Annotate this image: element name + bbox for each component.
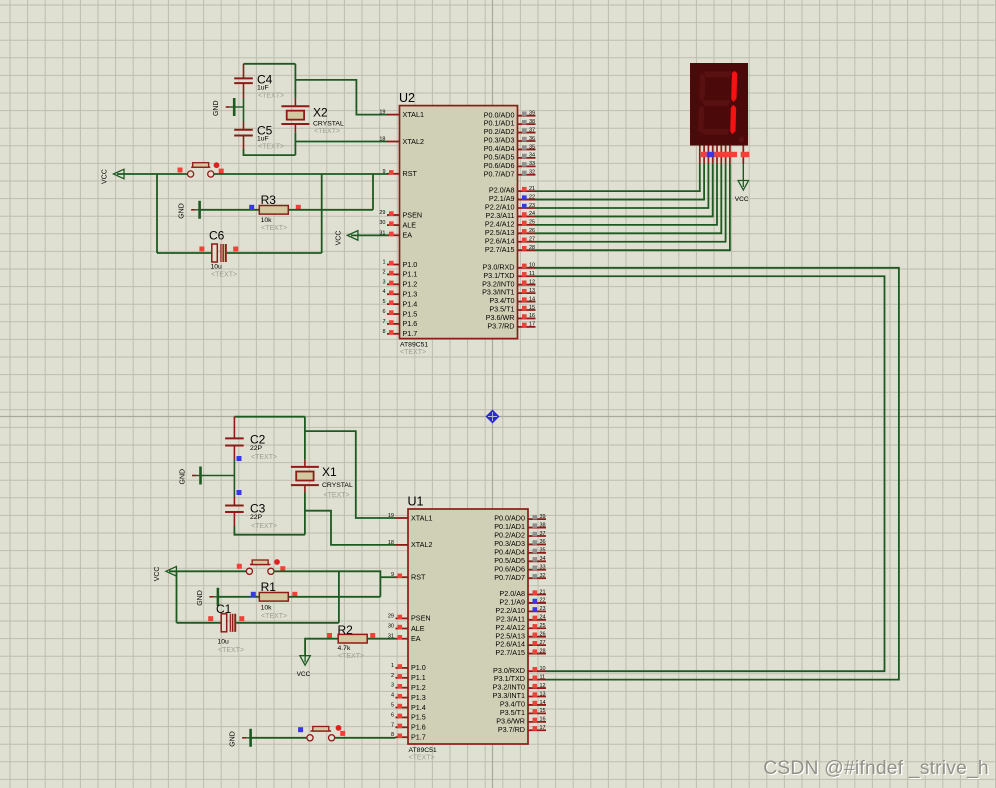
wire R2 to VCC down — [305, 639, 338, 656]
svg-text:<TEXT>: <TEXT> — [251, 454, 277, 461]
svg-text:1: 1 — [382, 260, 385, 266]
svg-text:<TEXT>: <TEXT> — [251, 523, 277, 530]
svg-text:14: 14 — [540, 700, 546, 706]
capacitor C2 — [225, 433, 277, 462]
pin 6 P1.5 U1 — [391, 712, 426, 721]
svg-text:26: 26 — [540, 632, 546, 638]
wire branch C6 right vertical — [321, 174, 323, 253]
button P1.7 — [307, 727, 335, 741]
display pin state band — [701, 152, 749, 157]
wire U2 P3.1 to U1 P3.0 — [536, 276, 885, 671]
svg-text:30: 30 — [379, 220, 385, 226]
pin 22 P2.1/A9 U1 — [499, 598, 546, 607]
pin 24 P2.3/A11 U2 — [485, 211, 535, 220]
pin 25 P2.4/A12 U2 — [485, 219, 536, 228]
pin 28 P2.7/A15 U1 — [495, 648, 546, 657]
state square R1 right — [292, 592, 297, 597]
pin 38 P0.1/AD1 U2 — [484, 119, 536, 128]
svg-text:P1.2: P1.2 — [411, 683, 426, 692]
capacitor C6 — [209, 229, 237, 279]
capacitor C1 — [216, 602, 244, 654]
7-segment display body — [690, 63, 748, 146]
svg-text:13: 13 — [540, 691, 546, 697]
svg-text:4.7k: 4.7k — [338, 645, 351, 652]
pin 8 P1.7 U2 — [382, 329, 417, 338]
svg-text:18: 18 — [379, 137, 385, 143]
wire GND to C3 — [233, 476, 235, 498]
pin 32 P0.7/AD7 U1 — [494, 573, 546, 582]
pin 17 P3.7/RD U1 — [498, 725, 546, 734]
button RST top — [188, 163, 214, 177]
svg-text:10u: 10u — [211, 263, 223, 270]
pin 27 P2.6/A14 U1 — [495, 640, 546, 649]
pin 39 P0.0/AD0 U2 — [484, 110, 536, 119]
wire to U1 XTAL2 — [305, 511, 396, 545]
svg-text:11: 11 — [540, 674, 546, 680]
svg-text:<TEXT>: <TEXT> — [324, 492, 350, 499]
svg-text:P1.1: P1.1 — [403, 270, 418, 279]
power VCC at RST row top — [102, 169, 125, 184]
pin 31 EA U1 — [388, 634, 421, 643]
pin 18 XTAL2 U1 — [388, 540, 433, 549]
pin 11 P3.1/TXD U1 — [494, 674, 546, 683]
pin 12 P3.2/INT0 U2 — [482, 279, 535, 288]
svg-text:3: 3 — [391, 683, 394, 689]
pin 2 P1.1 U2 — [382, 269, 417, 278]
svg-text:U1: U1 — [408, 495, 424, 509]
state square R3 left — [249, 205, 254, 210]
svg-text:P1.1: P1.1 — [411, 673, 426, 682]
pin 4 P1.3 U1 — [391, 693, 426, 702]
pin 5 P1.4 U2 — [382, 299, 417, 308]
origin marker — [486, 410, 500, 424]
svg-text:23: 23 — [540, 606, 546, 612]
svg-text:<TEXT>: <TEXT> — [218, 647, 244, 654]
wire display seg 0 to P2.0 — [536, 164, 700, 192]
pin 13 P3.3/INT1 U1 — [493, 691, 546, 700]
svg-text:U2: U2 — [399, 91, 415, 105]
svg-text:GND: GND — [230, 731, 237, 747]
svg-text:R3: R3 — [261, 193, 277, 207]
svg-text:CRYSTAL: CRYSTAL — [322, 482, 353, 489]
power VCC below R2 — [297, 656, 311, 679]
wire C6 row left — [157, 252, 212, 254]
wire U2 P3.0 to U1 P3.1 — [536, 268, 899, 680]
watermark CSDN — [763, 758, 990, 780]
wire GND to R3 — [200, 209, 260, 211]
svg-text:10: 10 — [529, 263, 535, 269]
wire branch C1 right vertical — [338, 571, 340, 623]
svg-text:VCC: VCC — [335, 231, 342, 246]
pin 36 P0.3/AD3 U2 — [484, 136, 536, 145]
svg-text:1uF: 1uF — [257, 85, 269, 92]
red dot button top — [214, 162, 220, 168]
wire X1 right vertical — [304, 417, 306, 535]
ground near R1 — [197, 588, 218, 606]
svg-text:10k: 10k — [261, 605, 273, 612]
state square C2 bottom — [237, 456, 242, 461]
power VCC at EA U2 — [335, 231, 358, 246]
svg-text:1uF: 1uF — [257, 136, 269, 143]
pin 31 EA U2 — [379, 230, 412, 239]
svg-text:P1.6: P1.6 — [403, 319, 418, 328]
svg-text:<TEXT>: <TEXT> — [400, 349, 426, 356]
wire C2 lead top — [233, 417, 235, 439]
svg-text:VCC: VCC — [735, 196, 749, 203]
wire to U2 XTAL1 — [295, 80, 387, 115]
svg-text:P3.7/RD: P3.7/RD — [498, 725, 525, 734]
wire C4 lead top — [243, 64, 245, 79]
pin 33 P0.6/AD6 U1 — [494, 564, 546, 573]
wire RST stub U1 — [380, 576, 395, 578]
svg-text:P1.0: P1.0 — [411, 663, 426, 672]
resistor R1 — [259, 580, 288, 620]
wire button to RST pin U2 — [214, 173, 388, 175]
svg-text:P3.7/RD: P3.7/RD — [487, 321, 514, 330]
pin 34 P0.5/AD5 U1 — [494, 556, 546, 565]
svg-text:35: 35 — [529, 144, 535, 150]
pin 5 P1.4 U1 — [391, 703, 426, 712]
pin 21 P2.0/A8 U1 — [499, 589, 546, 598]
state square R2 left — [327, 633, 332, 638]
svg-text:P1.6: P1.6 — [411, 723, 426, 732]
svg-text:17: 17 — [540, 725, 546, 731]
svg-text:R2: R2 — [338, 623, 354, 637]
svg-text:RST: RST — [403, 169, 418, 178]
svg-text:<TEXT>: <TEXT> — [314, 128, 340, 135]
state square C1 left — [208, 616, 213, 621]
state square button bottom right — [280, 566, 285, 571]
wire C1 row left — [177, 622, 222, 624]
svg-text:P1.4: P1.4 — [411, 703, 426, 712]
red dot button bottom — [274, 559, 280, 565]
pin 22 P2.1/A9 U2 — [489, 194, 536, 203]
svg-text:<TEXT>: <TEXT> — [338, 653, 364, 660]
svg-text:P1.5: P1.5 — [403, 309, 418, 318]
svg-text:5: 5 — [391, 703, 394, 709]
wire GND to button — [251, 737, 307, 739]
wire branch C1 left vertical — [176, 571, 178, 623]
pin 36 P0.3/AD3 U1 — [494, 539, 546, 548]
svg-text:6: 6 — [382, 309, 385, 315]
svg-text:22P: 22P — [250, 445, 263, 452]
pin 38 P0.1/AD1 U1 — [494, 522, 546, 531]
wire VCC to button bottom — [169, 570, 246, 572]
svg-text:GND: GND — [213, 100, 220, 116]
svg-text:10u: 10u — [218, 639, 230, 646]
svg-text:ALE: ALE — [411, 624, 425, 633]
svg-text:X2: X2 — [313, 106, 328, 120]
red dot button P1.7 — [336, 725, 342, 731]
svg-text:21: 21 — [529, 186, 535, 192]
pin 11 P3.1/TXD U2 — [483, 271, 535, 280]
pin 15 P3.5/T1 U2 — [489, 305, 535, 314]
pin 27 P2.6/A14 U2 — [485, 236, 536, 245]
svg-text:XTAL1: XTAL1 — [403, 110, 424, 119]
svg-text:2: 2 — [391, 673, 394, 679]
wire X1 top loop — [234, 416, 305, 418]
svg-text:RST: RST — [411, 573, 426, 582]
state square C1 right — [239, 616, 244, 621]
svg-text:AT89C51: AT89C51 — [409, 747, 437, 754]
svg-text:27: 27 — [540, 640, 546, 646]
svg-text:22: 22 — [529, 194, 535, 200]
svg-text:12: 12 — [529, 279, 535, 285]
wire display seg 7 to P2.7 — [536, 164, 730, 251]
wire GND to R1 — [218, 596, 259, 598]
state square C6 left — [199, 247, 204, 252]
svg-text:32: 32 — [529, 170, 535, 176]
wire GND to C5 — [243, 107, 245, 121]
svg-text:P2.7/A15: P2.7/A15 — [495, 648, 525, 657]
svg-text:38: 38 — [540, 522, 546, 528]
svg-text:P1.5: P1.5 — [411, 713, 426, 722]
wire display seg 4 to P2.4 — [536, 164, 718, 225]
state square button bottom left — [237, 564, 242, 569]
pin 16 P3.6/WR U2 — [486, 313, 536, 322]
pin 10 P3.0/RXD U2 — [483, 262, 536, 271]
svg-text:<TEXT>: <TEXT> — [258, 93, 284, 100]
pin 13 P3.3/INT1 U2 — [482, 288, 535, 297]
ground near C2/C3 — [180, 467, 235, 485]
svg-text:33: 33 — [529, 161, 535, 167]
svg-text:<TEXT>: <TEXT> — [261, 225, 287, 232]
pin 30 ALE U2 — [379, 220, 416, 229]
svg-text:32: 32 — [540, 573, 546, 579]
svg-text:X1: X1 — [322, 465, 337, 479]
lit segment b — [731, 71, 737, 102]
pin 33 P0.6/AD6 U2 — [484, 161, 536, 170]
pin 26 P2.5/A13 U2 — [485, 228, 536, 237]
crystal X2 — [281, 98, 344, 136]
wire C1 row right — [236, 622, 339, 624]
pin 35 P0.4/AD4 U2 — [484, 144, 536, 153]
svg-text:GND: GND — [197, 590, 204, 606]
pin 14 P3.4/T0 U1 — [500, 700, 546, 709]
ground near R3 — [179, 201, 200, 219]
wire branch R3 right vertical — [372, 174, 374, 210]
svg-text:C1: C1 — [216, 602, 232, 616]
svg-text:<TEXT>: <TEXT> — [409, 755, 435, 762]
svg-text:19: 19 — [379, 110, 385, 116]
svg-text:ALE: ALE — [403, 220, 417, 229]
state square C3 top — [237, 490, 242, 495]
svg-text:38: 38 — [529, 119, 535, 125]
svg-text:7: 7 — [382, 319, 385, 325]
pin 19 XTAL1 U1 — [388, 513, 433, 522]
pin 9 RST U1 — [391, 572, 426, 581]
state square R3 right — [296, 205, 301, 210]
svg-text:16: 16 — [540, 717, 546, 723]
svg-text:37: 37 — [540, 531, 546, 537]
pin 21 P2.0/A8 U2 — [489, 186, 536, 195]
wire R3 to vertical — [288, 209, 373, 211]
wire display seg 1 to P2.1 — [536, 164, 705, 200]
pin 29 PSEN U2 — [379, 210, 422, 219]
capacitor C4 — [234, 73, 284, 100]
wire branch left vertical to C6 — [156, 174, 158, 253]
svg-text:11: 11 — [529, 271, 535, 277]
svg-text:34: 34 — [529, 153, 535, 159]
pin 23 P2.2/A10 U2 — [485, 203, 536, 212]
svg-text:10: 10 — [540, 666, 546, 672]
svg-text:XTAL1: XTAL1 — [411, 513, 432, 522]
button RST bottom — [246, 560, 274, 574]
svg-text:<TEXT>: <TEXT> — [258, 144, 284, 151]
svg-text:23: 23 — [529, 203, 535, 209]
pin 35 P0.4/AD4 U1 — [494, 547, 546, 556]
pin 32 P0.7/AD7 U2 — [484, 169, 536, 178]
svg-text:17: 17 — [529, 322, 535, 328]
svg-text:GND: GND — [179, 203, 186, 219]
svg-text:P1.3: P1.3 — [411, 693, 426, 702]
capacitor C5 — [234, 121, 284, 151]
wire display seg 6 to P2.6 — [536, 164, 726, 242]
svg-text:P1.0: P1.0 — [403, 260, 418, 269]
svg-text:25: 25 — [540, 623, 546, 629]
pin 18 XTAL2 U2 — [379, 137, 424, 146]
svg-text:31: 31 — [379, 230, 385, 236]
svg-text:24: 24 — [540, 615, 546, 621]
wire display seg 2 to P2.2 — [536, 164, 709, 208]
state square button top right — [219, 169, 224, 174]
pin 29 PSEN U1 — [388, 613, 431, 622]
svg-text:XTAL2: XTAL2 — [403, 137, 424, 146]
wire C2 to GND — [233, 460, 235, 476]
svg-text:VCC: VCC — [154, 567, 161, 582]
pin 19 XTAL1 U2 — [379, 110, 424, 119]
svg-text:24: 24 — [529, 211, 535, 217]
svg-text:CSDN @#ifndef _strive_h: CSDN @#ifndef _strive_h — [763, 758, 989, 779]
pin 16 P3.6/WR U1 — [496, 716, 546, 725]
svg-text:P2.7/A15: P2.7/A15 — [485, 245, 515, 254]
wire to U1 XTAL1 — [305, 431, 396, 518]
chip U2 AT89C51 body — [399, 91, 518, 356]
svg-text:15: 15 — [529, 305, 535, 311]
capacitor C3 — [225, 497, 277, 530]
ground near C4/C5 — [213, 98, 243, 116]
svg-text:2: 2 — [382, 269, 385, 275]
svg-text:CRYSTAL: CRYSTAL — [313, 120, 344, 127]
pin 14 P3.4/T0 U2 — [489, 296, 535, 305]
svg-text:13: 13 — [529, 288, 535, 294]
svg-text:29: 29 — [379, 210, 385, 216]
wire C4 to GND — [243, 98, 245, 107]
svg-text:VCC: VCC — [297, 671, 311, 678]
wire display seg 5 to P2.5 — [536, 164, 722, 234]
svg-text:14: 14 — [529, 296, 535, 302]
svg-text:33: 33 — [540, 565, 546, 571]
pin 34 P0.5/AD5 U2 — [484, 153, 536, 162]
svg-text:4: 4 — [391, 693, 394, 699]
svg-text:P1.3: P1.3 — [403, 290, 418, 299]
pin 4 P1.3 U2 — [382, 289, 417, 298]
pin 2 P1.1 U1 — [391, 673, 426, 682]
wire X1 bottom loop — [234, 526, 305, 535]
svg-text:EA: EA — [411, 634, 421, 643]
pin 9 RST U2 — [382, 169, 417, 178]
state square R2 right — [370, 633, 375, 638]
svg-text:P1.7: P1.7 — [403, 329, 418, 338]
svg-text:1: 1 — [391, 663, 394, 669]
pin 6 P1.5 U2 — [382, 309, 417, 318]
power VCC below display — [735, 164, 749, 204]
pin 10 P3.0/RXD U1 — [493, 666, 546, 675]
state square C6 right — [233, 247, 238, 252]
pin 7 P1.6 U1 — [391, 722, 426, 731]
svg-text:6: 6 — [391, 712, 394, 718]
svg-text:25: 25 — [529, 220, 535, 226]
pin 30 ALE U1 — [388, 624, 425, 633]
wire to U2 XTAL2 — [295, 141, 387, 143]
wire crystal right vertical — [294, 64, 296, 155]
svg-text:XTAL2: XTAL2 — [411, 540, 432, 549]
pin 3 P1.2 U1 — [391, 683, 426, 692]
pin 24 P2.3/A11 U1 — [496, 614, 546, 623]
pin 25 P2.4/A12 U1 — [495, 623, 546, 632]
svg-text:27: 27 — [529, 237, 535, 243]
svg-text:5: 5 — [382, 299, 385, 305]
svg-text:10k: 10k — [261, 217, 273, 224]
lit segment c — [730, 105, 736, 135]
svg-text:29: 29 — [388, 613, 394, 619]
svg-text:21: 21 — [540, 589, 546, 595]
svg-text:36: 36 — [529, 136, 535, 142]
svg-text:P0.7/AD7: P0.7/AD7 — [484, 169, 515, 178]
svg-text:AT89C51: AT89C51 — [400, 342, 428, 349]
pin 12 P3.2/INT0 U1 — [493, 683, 546, 692]
svg-text:9: 9 — [382, 169, 385, 175]
svg-text:3: 3 — [382, 279, 385, 285]
svg-text:35: 35 — [540, 548, 546, 554]
svg-text:EA: EA — [403, 231, 413, 240]
svg-text:12: 12 — [540, 683, 546, 689]
wire button to RST corner — [274, 571, 380, 597]
svg-text:<TEXT>: <TEXT> — [211, 272, 237, 279]
pin 17 P3.7/RD U2 — [487, 321, 535, 330]
svg-text:P0.7/AD7: P0.7/AD7 — [494, 573, 525, 582]
svg-text:26: 26 — [529, 228, 535, 234]
svg-text:GND: GND — [180, 469, 187, 485]
pin 8 P1.7 U1 — [391, 732, 426, 741]
svg-text:36: 36 — [540, 539, 546, 545]
svg-text:P1.4: P1.4 — [403, 299, 418, 308]
pin 28 P2.7/A15 U2 — [485, 245, 536, 254]
crystal X1 — [291, 460, 353, 499]
pin 23 P2.2/A10 U1 — [495, 606, 546, 615]
svg-text:37: 37 — [529, 127, 535, 133]
svg-text:C6: C6 — [209, 229, 225, 243]
chip U1 AT89C51 body — [408, 495, 529, 762]
pin 1 P1.0 U1 — [391, 663, 426, 672]
svg-text:15: 15 — [540, 708, 546, 714]
svg-text:7: 7 — [391, 722, 394, 728]
svg-text:P1.2: P1.2 — [403, 280, 418, 289]
wire XTAL1 top loop — [244, 63, 296, 65]
wire VCC to EA pin — [351, 234, 388, 236]
pin 3 P1.2 U2 — [382, 279, 417, 288]
svg-text:30: 30 — [388, 624, 394, 630]
state square button P1.7 red — [340, 731, 345, 736]
wire R1 to RST vertical — [288, 596, 380, 598]
svg-text:22: 22 — [540, 598, 546, 604]
svg-text:PSEN: PSEN — [411, 614, 431, 623]
wire XTAL2 bottom loop — [244, 149, 296, 155]
ground near bottom button — [230, 729, 251, 747]
pin 1 P1.0 U2 — [382, 260, 417, 269]
pin 39 P0.0/AD0 U1 — [494, 514, 546, 523]
power VCC at RST row bottom — [154, 567, 177, 582]
